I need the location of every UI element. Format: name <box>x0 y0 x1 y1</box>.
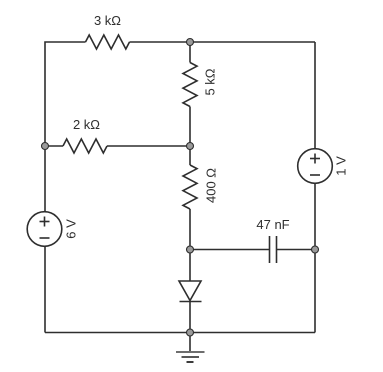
wire top rail right of R1 <box>130 41 316 43</box>
wire middle rail between node B and 400 ohm <box>189 146 191 165</box>
wire right rail top <box>314 42 316 149</box>
wire left rail bottom <box>44 247 46 333</box>
svg-text:2 kΩ: 2 kΩ <box>73 117 100 132</box>
svg-text:6 V: 6 V <box>64 219 79 239</box>
wire top-left segment <box>45 42 86 146</box>
wire cap row right segment <box>277 249 316 251</box>
resistor R2 5 kΩ <box>183 63 197 107</box>
resistor R3 2 kΩ <box>63 139 107 153</box>
wire bottom rail <box>45 332 315 334</box>
svg-text:5 kΩ: 5 kΩ <box>203 68 218 95</box>
diode D1 <box>179 281 202 302</box>
wire middle rail between 400 ohm and node C <box>189 209 191 250</box>
svg-text:3 kΩ: 3 kΩ <box>94 13 121 28</box>
node junction middle 2k/5k/400 <box>187 143 194 150</box>
wire diode anode stub <box>189 250 191 282</box>
resistor R4 400 Ω <box>183 165 197 209</box>
wire right rail bottom <box>314 184 316 333</box>
capacitor C1 47 nF <box>270 236 277 263</box>
wire middle rail top stub <box>189 42 191 63</box>
svg-text:400 Ω: 400 Ω <box>204 168 219 203</box>
voltage source V2 1 V <box>298 149 333 184</box>
wire 2k row right segment <box>107 145 190 147</box>
svg-text:47 nF: 47 nF <box>256 217 289 232</box>
wire middle rail between 5k and node B <box>189 107 191 147</box>
voltage source V1 6 V <box>27 212 62 247</box>
node junction left 2k <box>42 143 49 150</box>
wire 2k row left stub <box>45 145 63 147</box>
svg-text:1 V: 1 V <box>334 156 349 176</box>
wire cap row left segment <box>190 249 270 251</box>
node junction cap left <box>187 246 194 253</box>
resistor R1 3 kΩ <box>86 35 130 49</box>
wire left rail middle (node between 2k and 6V source) <box>44 146 46 212</box>
ground <box>176 333 205 363</box>
node junction top middle <box>187 39 194 46</box>
wire diode cathode to bottom rail <box>189 302 191 333</box>
node junction cap right <box>312 246 319 253</box>
node junction bottom middle <box>187 329 194 336</box>
